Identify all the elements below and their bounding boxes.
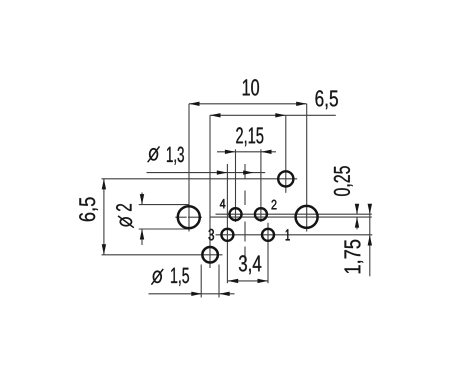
label contact 3 — [209, 229, 215, 241]
wire leader dia 1,3 — [147, 172, 266, 174]
wire dim line 0,25 upper — [356, 204, 358, 214]
contact 4 hole — [230, 208, 242, 220]
label dia 2 rotated — [116, 204, 134, 228]
wire extension contact1 vertical — [267, 223, 269, 283]
wire dim line 10 — [189, 103, 307, 105]
arrowhead 3,4 left — [228, 279, 239, 283]
arrowhead leader dia1,3 a — [217, 170, 228, 174]
contact 3 hole — [221, 229, 233, 241]
wire leader dia 1,5 — [149, 293, 235, 295]
wire extension bottom hole right tangent — [218, 265, 220, 298]
label contact 4 — [220, 199, 226, 208]
wire extension contact4 vertical — [235, 149, 237, 222]
contact 1 hole — [262, 229, 274, 241]
arrowhead 10 left — [189, 102, 200, 106]
hole top dia1,3 — [278, 171, 293, 186]
hole left dia2 — [178, 206, 200, 228]
wire dim line 6,5 left vertical — [103, 179, 105, 255]
hole right dia2 — [296, 206, 318, 228]
arrowhead dia1,5 right — [219, 292, 230, 296]
arrowhead 2,15 right — [261, 150, 272, 154]
hole bottom dia1,5 — [202, 247, 218, 262]
arrowhead dia1,5 left — [191, 292, 202, 296]
wire extension top row y178.8 — [102, 178, 298, 180]
wire dim line dia2 upper — [141, 193, 143, 205]
arrowhead 3,4 right — [258, 279, 269, 283]
wire row line B y217.1 — [211, 216, 372, 218]
arrowhead dia2 bottom — [140, 229, 144, 240]
label dim 6,5 left rotated — [79, 197, 98, 221]
wire dim line 3,4 — [228, 280, 269, 282]
wire dim line 0,25 lower — [356, 217, 358, 229]
wire dim line 6,5 top — [210, 114, 336, 116]
arrowhead 0,25 bottom — [355, 217, 359, 228]
wire centerline dash-dot vertical — [244, 164, 246, 262]
wire row line A y214.2 — [216, 213, 372, 215]
wire dim line 2,15 — [217, 151, 276, 153]
arrowhead 0,25 top — [355, 204, 359, 215]
arrowhead 10 right — [296, 102, 307, 106]
arrowhead 6,5left top — [102, 179, 106, 190]
label contact 2 — [272, 200, 277, 210]
contact 2 hole — [255, 208, 267, 220]
label dim 0,25 rotated — [334, 166, 353, 196]
wire dim line dia2 lower — [141, 229, 143, 245]
wire extension left hole vertical — [188, 104, 190, 232]
label dim 10 — [243, 79, 259, 95]
label dia 1,3 — [148, 146, 184, 164]
label dim 3,4 — [239, 255, 261, 274]
arrowhead 6,5top left — [210, 113, 221, 117]
wire row line C y234.6 — [216, 234, 373, 236]
wire extension dia2 top — [139, 204, 190, 206]
wire extension right hole vertical — [306, 104, 308, 232]
wire extension top hole vertical — [285, 115, 287, 193]
wire extension dia2 bottom — [139, 228, 190, 230]
arrowhead dia2 top — [140, 194, 144, 205]
label dim 6,5 top right — [316, 90, 338, 109]
arrowhead leader dia1,3 b — [243, 170, 254, 174]
arrowhead 1,75 bottom — [368, 235, 372, 246]
arrowhead 2,15 left — [225, 150, 236, 154]
wire left hole crosshair horizontal a — [175, 216, 186, 218]
label contact 1 — [286, 229, 290, 240]
wire left hole crosshair horizontal b — [188, 216, 202, 218]
wire extension contact3 vertical — [226, 164, 228, 283]
wire extension bottom row y254.8 — [102, 254, 223, 256]
wire extension contact2 vertical — [260, 149, 262, 222]
label dia 1,5 — [151, 268, 189, 286]
arrowhead 6,5top right — [275, 113, 286, 117]
label dim 1,75 rotated — [345, 240, 364, 273]
wire dim line 1,75 vertical — [369, 205, 371, 277]
wire extension bottom hole left tangent — [200, 265, 202, 298]
arrowhead 6,5left bottom — [102, 244, 106, 255]
arrowhead 1,75 top — [368, 204, 372, 215]
label dim 2,15 — [236, 127, 263, 146]
wire extension bottom hole vertical — [209, 115, 211, 268]
